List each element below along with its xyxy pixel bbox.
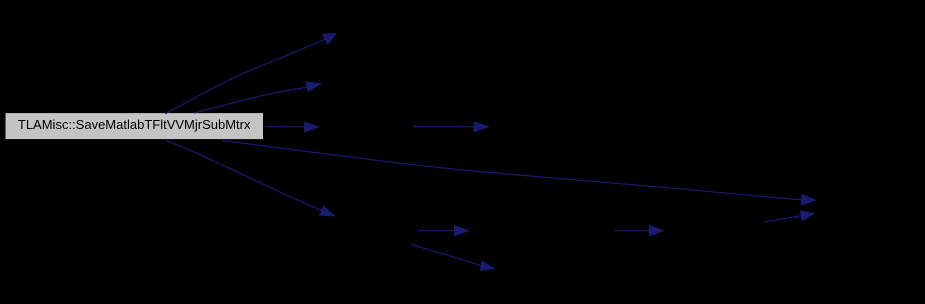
- edge: node5 to node7 (down-right): [411, 244, 496, 271]
- edge: main box to node5 (down-right): [166, 140, 335, 216]
- edge: node6 to node9 (horizontal): [613, 225, 665, 237]
- edge: main box to node4 (horizontal): [264, 121, 320, 132]
- edge: main box to node2 (top-right): [165, 33, 337, 114]
- edge: main box to node3: [194, 81, 322, 113]
- edge: node5 to node6 (horizontal): [418, 225, 470, 237]
- edge: node4 to node10 (horizontal): [413, 121, 490, 132]
- edge: node9 to node8 (up-right): [765, 210, 816, 222]
- edge: main box to node8 (long curve to far right): [223, 141, 817, 206]
- svg-text:TLAMisc::SaveMatlabTFltVVMjrSu: TLAMisc::SaveMatlabTFltVVMjrSubMtrx: [18, 117, 251, 132]
- node1: main box TLAMisc::SaveMatlabTFltVVMjrSubMtrx: [6, 113, 264, 139]
